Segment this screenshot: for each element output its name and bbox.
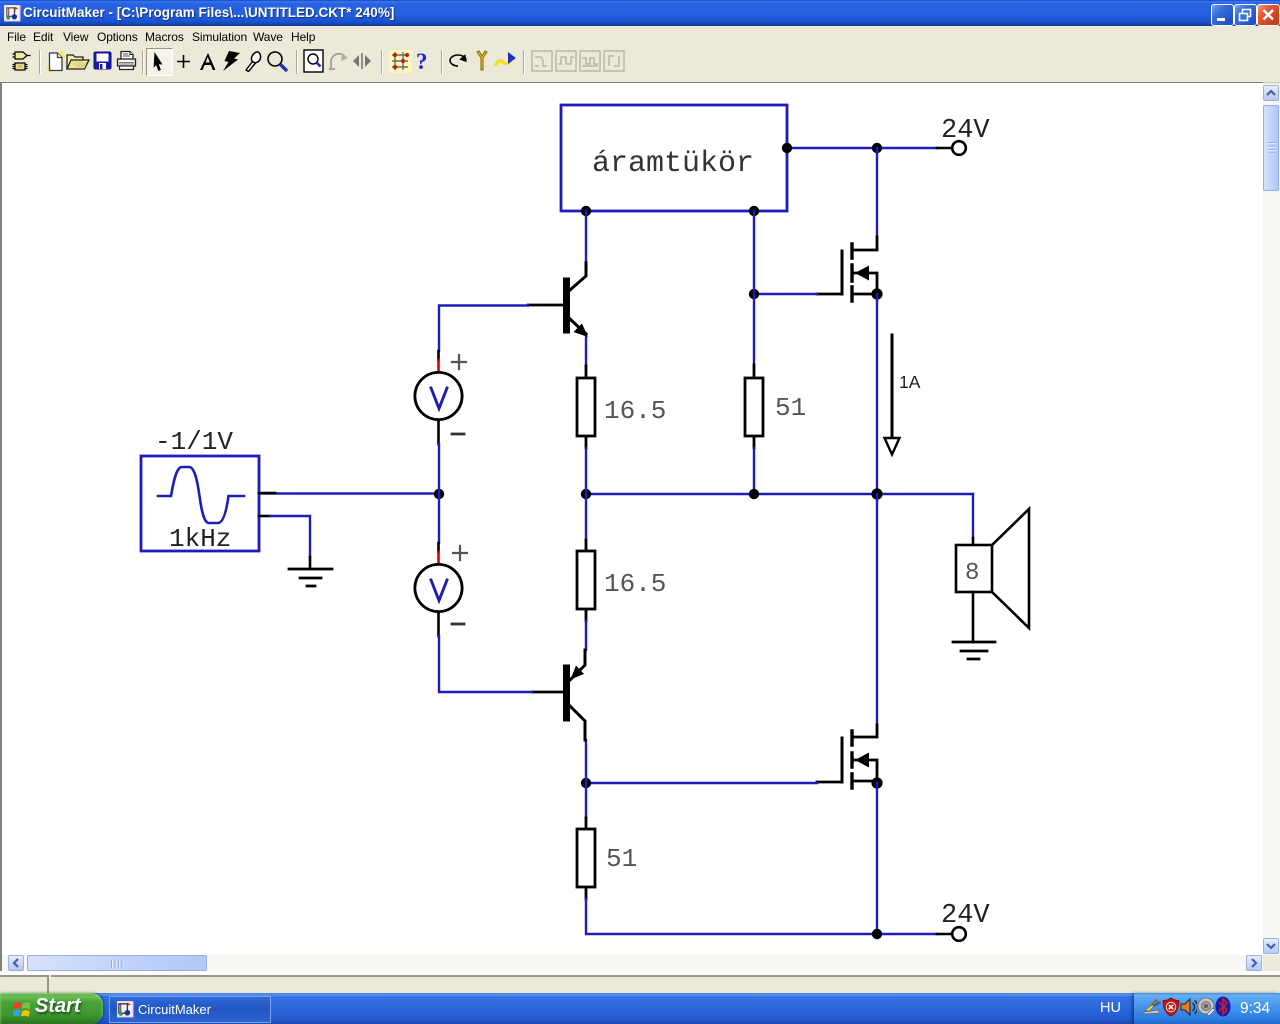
resistor R1 16.5 (upper) [577, 366, 666, 448]
wire: junction down to R4 [585, 783, 587, 818]
mosfet M2 (bottom, n-channel) [817, 725, 877, 788]
taskbar [0, 993, 1280, 1024]
svg-text:16.5: 16.5 [604, 569, 666, 599]
svg-text:51: 51 [775, 393, 806, 423]
wire: M2 source down to bottom rail [876, 783, 878, 934]
node: mid rail at 16.5 resistors [581, 489, 591, 499]
title bar [0, 0, 1280, 26]
svg-text:1kHz: 1kHz [169, 524, 231, 554]
wire: source minus stub to ground [270, 516, 310, 557]
wire: mid rail to V2 [438, 494, 440, 543]
source VS (-1/1V 1kHz) [141, 427, 275, 554]
resistor R2 16.5 (lower) [577, 540, 666, 621]
node: gate / mirror leg junction [749, 289, 759, 299]
toolbar [0, 46, 1280, 83]
node: mirror box bottom-left pin [581, 206, 591, 216]
wire: Q1 base to voltmeter chain corner [439, 306, 528, 352]
svg-text:16.5: 16.5 [604, 396, 666, 426]
wire: Q2 collector down to junction [585, 740, 587, 783]
node: mid rail at R3 [749, 489, 759, 499]
node: mirror box bottom-right pin [749, 206, 759, 216]
wire: M1 source down to mid rail [876, 294, 878, 494]
terminal 24V (bottom) [941, 901, 990, 941]
wire: black lead into bottom terminal [937, 933, 952, 936]
svg-text:áramtükör: áramtükör [592, 147, 754, 181]
node: top rail junction [872, 143, 882, 153]
node: box right pin [782, 143, 792, 153]
wire: mirror left leg down to Q1 collector [585, 211, 587, 263]
svg-text:?: ? [416, 50, 428, 73]
wire: mirror box right to 24V rail [787, 147, 937, 149]
voltmeter V2 (lower) [415, 543, 467, 636]
wire: R1 to mid rail [585, 448, 587, 494]
wire: R3 to mid rail [753, 448, 755, 494]
wire: mirror right leg down [753, 211, 755, 365]
wire: Q1 emitter to R1 [585, 337, 587, 366]
wire: mid rail to R2 [585, 494, 587, 540]
mosfet M1 (top, n-channel) [817, 237, 877, 301]
start button [0, 993, 103, 1024]
menu bar [0, 26, 1280, 46]
wire: M2 gate line to left [586, 782, 817, 784]
wire: V2 down and right to Q2 base [439, 636, 532, 692]
tray [1134, 993, 1280, 1024]
svg-text:8: 8 [965, 560, 979, 587]
svg-text:1A: 1A [899, 372, 921, 392]
resistor R3 51 (upper right) [745, 365, 806, 448]
svg-text:51: 51 [606, 844, 637, 874]
wire: R2 to Q2 emitter [585, 621, 587, 650]
ground (source) [289, 557, 332, 586]
node: mid rail at voltmeter chain [434, 489, 444, 499]
wire: mid rail to speaker [972, 494, 974, 538]
wire: mosfet column mid to M2 drain [876, 494, 878, 725]
svg-text:24V: 24V [941, 116, 990, 146]
wire: M1 gate to mirror leg [754, 293, 817, 295]
speaker LS1 8 ohm [956, 509, 1029, 642]
transistor Q1 (NPN) [528, 263, 588, 337]
transistor Q2 (PNP) [532, 650, 585, 740]
node: mid rail at mosfet column [871, 488, 882, 499]
node: M2 source [871, 777, 882, 788]
current arrow 1A [885, 335, 921, 455]
node: gate / Q2 collector junction [581, 778, 591, 788]
horizontal scrollbar [2, 955, 1263, 972]
node: bottom rail junction [872, 929, 882, 939]
svg-text:24V: 24V [941, 901, 990, 931]
wire: mid horizontal rail [586, 493, 973, 495]
wire: black lead into top terminal [937, 147, 952, 150]
resistor R4 51 (bottom) [577, 818, 637, 899]
vertical scrollbar [1263, 84, 1280, 955]
wire: R4 to bottom rail [586, 899, 937, 934]
terminal 24V (top) [941, 116, 990, 155]
ground (speaker) [953, 642, 995, 659]
wire: V1 to mid rail [438, 444, 440, 494]
status bar [0, 971, 1280, 993]
voltmeter V1 (upper) [415, 351, 466, 444]
svg-text:-1/1V: -1/1V [155, 427, 233, 457]
wire: top rail down to M1 drain [876, 148, 878, 237]
wire: source to voltmeter chain node [262, 492, 439, 494]
block áramtükör (current mirror) [561, 105, 787, 211]
node: M1 source [871, 288, 882, 299]
task button [109, 996, 271, 1023]
